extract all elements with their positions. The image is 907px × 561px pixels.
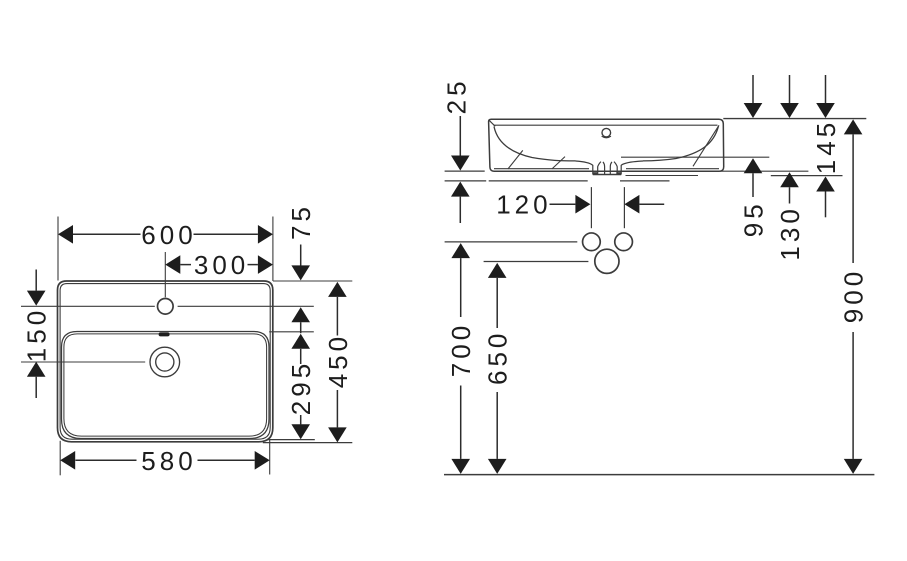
dimension 900: [844, 119, 863, 474]
145 reference line: [771, 175, 843, 177]
washbasin top view: outer rim outline: [58, 281, 273, 442]
supply connection left: [583, 233, 601, 251]
drain inner circle: [156, 353, 174, 371]
mounting reference line: [445, 180, 670, 182]
floor line: [444, 474, 874, 476]
dimension 25: [451, 116, 470, 223]
front view: corner chamfer: [489, 120, 495, 126]
washbasin front view: outer profile: [489, 119, 724, 171]
overflow slot: [159, 332, 170, 336]
washbasin top view: inner bowl outline: [62, 332, 270, 439]
front view: wall edge diagonals: [508, 125, 719, 169]
svg-text:120: 120: [496, 190, 551, 220]
svg-text:300: 300: [194, 250, 249, 280]
svg-text:75: 75: [286, 203, 316, 240]
svg-text:650: 650: [483, 330, 513, 385]
25 upper reference line: [445, 170, 485, 172]
front view: bottom inner line: [494, 168, 719, 170]
svg-text:450: 450: [323, 333, 353, 388]
svg-text:95: 95: [739, 200, 769, 237]
svg-text:900: 900: [839, 268, 869, 323]
supply level reference line: [445, 241, 578, 243]
extension lines 580: [60, 440, 270, 476]
svg-text:700: 700: [446, 322, 476, 377]
dimension 295: [291, 334, 310, 439]
bottom extension to right: [720, 170, 808, 172]
bowl top right extension: [269, 331, 314, 333]
svg-text:145: 145: [811, 119, 841, 174]
bowl bottom right extension: [268, 439, 315, 441]
front view: bowl curve right: [643, 126, 719, 161]
dimension 300: [165, 255, 273, 274]
top surface extension line: [723, 118, 866, 120]
dimension 145: [816, 177, 835, 218]
front view: bowl curve left: [494, 127, 576, 161]
drain leader line: [21, 361, 145, 363]
top edge right extension: [273, 280, 352, 282]
dimension 95: [744, 158, 763, 197]
dimension 580: [60, 451, 270, 470]
down arrows onto top surface: [744, 75, 835, 118]
svg-text:600: 600: [141, 220, 196, 250]
waste connection: [595, 249, 619, 273]
front view: drain trap: [576, 161, 644, 175]
dimension 700: [451, 243, 470, 474]
svg-text:150: 150: [22, 307, 52, 362]
waste level reference line: [484, 261, 589, 263]
drain outer circle: [150, 347, 180, 377]
tap hole horizontal centerline: [21, 305, 314, 307]
120 extension lines: [591, 187, 624, 228]
front view: underside recess line: [626, 175, 699, 177]
svg-text:295: 295: [286, 360, 316, 415]
dimension 650: [488, 263, 507, 474]
dimension 75: [291, 245, 310, 334]
dimension 130: [780, 172, 799, 203]
tap hole circle: [158, 299, 174, 315]
svg-text:580: 580: [141, 446, 196, 476]
front view: siphon line: [621, 156, 769, 158]
dimension 450: [328, 282, 347, 443]
supply connection right: [615, 233, 633, 251]
tap hole vertical centerline: [164, 252, 166, 297]
front view: tap hole: [602, 128, 611, 137]
extension lines 600: [58, 217, 273, 282]
dimension 600: [58, 225, 273, 244]
dimension 150: [27, 270, 46, 399]
dimension 120: [550, 195, 665, 214]
svg-text:130: 130: [775, 205, 805, 260]
front view: inner rim line: [494, 124, 718, 126]
outer bottom right extension: [263, 442, 353, 444]
svg-text:25: 25: [442, 77, 472, 114]
